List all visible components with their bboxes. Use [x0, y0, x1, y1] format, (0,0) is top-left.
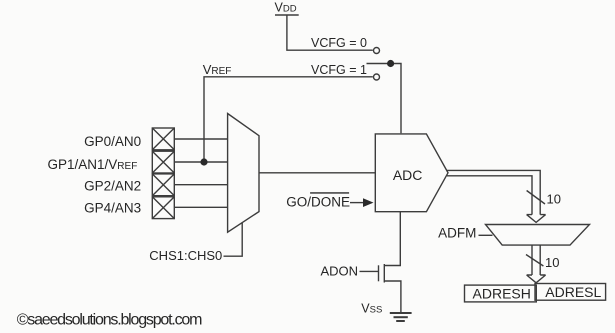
svg-text:CHS1:CHS0: CHS1:CHS0: [149, 248, 222, 263]
svg-text:GO/DONE: GO/DONE: [286, 195, 350, 210]
svg-text:GP0/AN0: GP0/AN0: [84, 134, 141, 149]
svg-text:VCFG = 1: VCFG = 1: [311, 63, 367, 77]
svg-text:10: 10: [545, 255, 559, 270]
svg-text:ADFM: ADFM: [438, 226, 476, 241]
svg-text:ADRESH: ADRESH: [473, 286, 531, 302]
svg-text:10: 10: [547, 192, 561, 207]
svg-text:ADON: ADON: [320, 263, 358, 278]
svg-text:GP4/AN3: GP4/AN3: [84, 201, 141, 216]
svg-text:ADC: ADC: [393, 167, 423, 183]
svg-text:VDD: VDD: [275, 1, 297, 15]
svg-text:VCFG = 0: VCFG = 0: [311, 36, 367, 50]
svg-text:ADRESL: ADRESL: [545, 284, 601, 300]
svg-text:©saeedsolutions.blogspot.com: ©saeedsolutions.blogspot.com: [17, 311, 202, 328]
svg-text:VSS: VSS: [361, 302, 382, 316]
svg-text:GP2/AN2: GP2/AN2: [84, 179, 141, 194]
